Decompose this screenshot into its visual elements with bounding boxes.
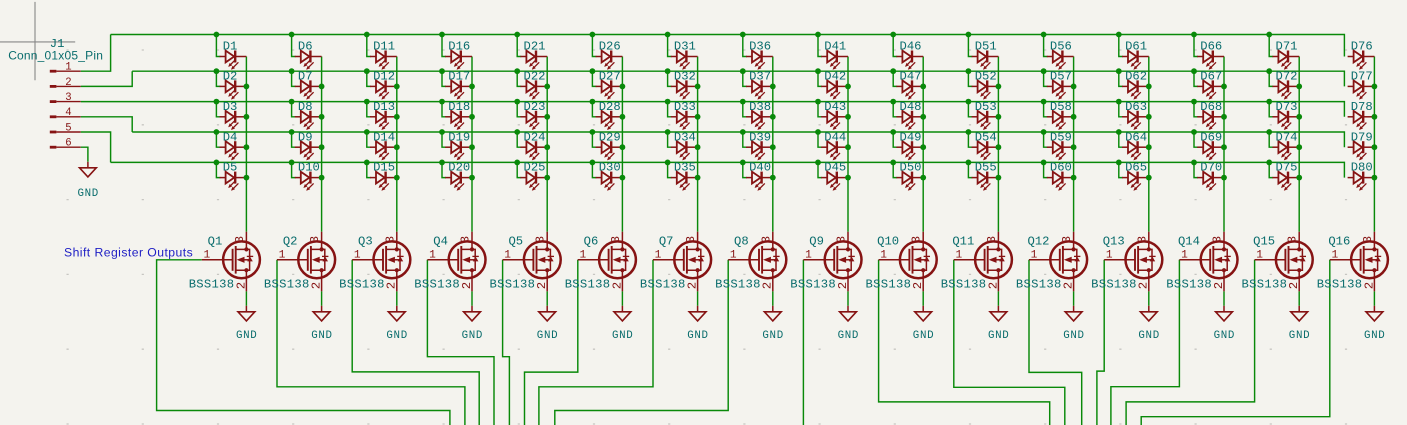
svg-text:D2: D2 bbox=[223, 70, 238, 84]
junction D69 cathode bbox=[1221, 144, 1227, 150]
svg-text:3: 3 bbox=[1135, 236, 1149, 243]
wire D11 anode stub bbox=[367, 35, 371, 57]
wire D44 anode stub bbox=[818, 132, 822, 147]
junction D19 cathode bbox=[469, 144, 475, 150]
wire row 3 bus bbox=[81, 102, 1345, 117]
svg-text:D6: D6 bbox=[298, 40, 313, 54]
svg-text:1: 1 bbox=[429, 250, 436, 262]
LED D75 bbox=[1272, 172, 1299, 191]
junction row4 col12 bbox=[1041, 129, 1047, 135]
svg-text:G N D: G N D bbox=[838, 330, 859, 342]
svg-text:1: 1 bbox=[1256, 250, 1263, 262]
junction D27 cathode bbox=[620, 84, 626, 90]
wire D6 anode stub bbox=[292, 35, 296, 57]
ground symbol Q10 bbox=[913, 312, 934, 342]
wire D8 anode stub bbox=[292, 102, 296, 117]
wire D2 anode stub bbox=[216, 71, 220, 86]
wire Q7 gate net bbox=[539, 260, 653, 425]
junction D5 cathode bbox=[244, 175, 250, 181]
svg-text:3: 3 bbox=[835, 236, 849, 243]
junction D60 cathode bbox=[1071, 175, 1077, 181]
svg-text:BSS138: BSS138 bbox=[1166, 277, 1212, 291]
wire Q11 gate net bbox=[954, 260, 1065, 425]
junction D55 cathode bbox=[996, 175, 1002, 181]
ground symbol Q15 bbox=[1289, 312, 1310, 342]
wire D74 anode stub bbox=[1269, 132, 1273, 147]
svg-text:BSS138: BSS138 bbox=[414, 277, 460, 291]
wire Q10 source to ground bbox=[922, 291, 924, 305]
svg-text:D44: D44 bbox=[824, 130, 846, 144]
wire D61 anode stub bbox=[1119, 35, 1123, 57]
wire D38 anode stub bbox=[743, 102, 747, 117]
svg-text:1: 1 bbox=[730, 250, 737, 262]
svg-text:Q8: Q8 bbox=[734, 235, 749, 249]
svg-text:D27: D27 bbox=[599, 70, 621, 84]
node diode column 9 cathode vertical bbox=[847, 57, 849, 232]
junction D78 cathode bbox=[1372, 114, 1378, 120]
LED D20 bbox=[445, 172, 472, 191]
wire D57 anode stub bbox=[1044, 71, 1048, 86]
junction D39 cathode bbox=[770, 144, 776, 150]
svg-text:Shift Register Outputs: Shift Register Outputs bbox=[64, 245, 193, 259]
junction row2 col6 bbox=[590, 68, 596, 74]
junction D10 cathode bbox=[319, 175, 325, 181]
pin 4 bbox=[50, 115, 57, 118]
svg-text:D63: D63 bbox=[1125, 100, 1147, 114]
svg-text:D55: D55 bbox=[975, 161, 997, 175]
transistor Q8 bbox=[715, 232, 786, 292]
ground symbol Q1 bbox=[236, 312, 257, 342]
svg-text:Q2: Q2 bbox=[283, 235, 298, 249]
junction row4 col11 bbox=[966, 129, 972, 135]
LED D51 bbox=[972, 51, 999, 70]
wire D28 anode stub bbox=[592, 102, 596, 117]
svg-text:Q12: Q12 bbox=[1028, 235, 1050, 249]
LED D7 bbox=[295, 80, 322, 99]
wire D21 anode stub bbox=[517, 35, 521, 57]
svg-text:D11: D11 bbox=[373, 40, 395, 54]
LED D16 bbox=[445, 51, 472, 70]
svg-text:D73: D73 bbox=[1276, 100, 1298, 114]
wire Q11 source to ground bbox=[997, 291, 999, 305]
wire Q1 gate net bbox=[157, 260, 450, 425]
connector J1 bbox=[8, 37, 103, 150]
wire D73 anode stub bbox=[1269, 102, 1273, 117]
wire Q3 source to ground bbox=[396, 291, 398, 305]
svg-text:2: 2 bbox=[310, 282, 324, 289]
node diode column 13 cathode vertical bbox=[1148, 57, 1150, 232]
svg-text:G N D: G N D bbox=[762, 330, 783, 342]
pin 5 bbox=[50, 131, 57, 134]
svg-text:G N D: G N D bbox=[462, 330, 483, 342]
LED D34 bbox=[671, 141, 698, 160]
junction row2 col9 bbox=[815, 68, 821, 74]
junction D44 cathode bbox=[845, 144, 851, 150]
wire D32 anode stub bbox=[668, 71, 672, 86]
wire Q1 source to ground bbox=[245, 291, 247, 305]
junction row4 col10 bbox=[890, 129, 896, 135]
LED D3 bbox=[220, 111, 247, 130]
junction D34 cathode bbox=[695, 144, 701, 150]
svg-text:2: 2 bbox=[1287, 282, 1301, 289]
svg-text:D72: D72 bbox=[1276, 70, 1298, 84]
svg-text:Q11: Q11 bbox=[952, 235, 974, 249]
junction D75 cathode bbox=[1296, 175, 1302, 181]
LED D39 bbox=[746, 141, 773, 160]
ground symbol Q12 bbox=[1063, 312, 1084, 342]
svg-text:G N D: G N D bbox=[1214, 330, 1235, 342]
LED D56 bbox=[1047, 51, 1074, 70]
svg-text:G N D: G N D bbox=[913, 330, 934, 342]
svg-text:D20: D20 bbox=[448, 161, 470, 175]
wire Q4 gate net bbox=[427, 260, 494, 425]
junction row4 col7 bbox=[665, 129, 671, 135]
svg-text:Q5: Q5 bbox=[508, 235, 523, 249]
wire D29 anode stub bbox=[592, 132, 596, 147]
svg-text:D8: D8 bbox=[298, 100, 313, 114]
svg-text:D54: D54 bbox=[975, 130, 997, 144]
junction D7 cathode bbox=[319, 84, 325, 90]
LED D32 bbox=[671, 80, 698, 99]
wire D16 anode stub bbox=[442, 35, 446, 57]
svg-text:G N D: G N D bbox=[1138, 330, 1159, 342]
svg-text:BSS138: BSS138 bbox=[866, 277, 912, 291]
wire D46 anode stub bbox=[893, 35, 897, 57]
wire D33 anode stub bbox=[668, 102, 672, 117]
wire D23 anode stub bbox=[517, 102, 521, 117]
junction row4 col3 bbox=[364, 129, 370, 135]
wire D34 anode stub bbox=[668, 132, 672, 147]
junction row4 col15 bbox=[1266, 129, 1272, 135]
LED D9 bbox=[295, 141, 322, 160]
svg-text:3: 3 bbox=[1361, 236, 1375, 243]
junction row1 col12 bbox=[1041, 32, 1047, 38]
svg-text:G N D: G N D bbox=[687, 330, 708, 342]
svg-text:Conn_01x05_Pin: Conn_01x05_Pin bbox=[8, 49, 103, 63]
svg-text:D24: D24 bbox=[524, 130, 546, 144]
svg-text:BSS138: BSS138 bbox=[1016, 277, 1062, 291]
junction D73 cathode bbox=[1296, 114, 1302, 120]
wire Q2 gate net bbox=[277, 260, 465, 425]
wire Q6 source to ground bbox=[621, 291, 623, 305]
junction row5 col12 bbox=[1041, 160, 1047, 166]
junction D15 cathode bbox=[394, 175, 400, 181]
junction D13 cathode bbox=[394, 114, 400, 120]
svg-text:1: 1 bbox=[203, 250, 210, 262]
junction D53 cathode bbox=[996, 114, 1002, 120]
ground symbol Q2 bbox=[311, 312, 332, 342]
wire D68 anode stub bbox=[1194, 102, 1198, 117]
LED D27 bbox=[596, 80, 623, 99]
wire D9 anode stub bbox=[292, 132, 296, 147]
svg-text:D56: D56 bbox=[1050, 40, 1072, 54]
wire D45 anode stub bbox=[818, 162, 822, 177]
svg-text:2: 2 bbox=[1362, 282, 1376, 289]
wire D51 anode stub bbox=[968, 35, 972, 57]
wire D54 anode stub bbox=[968, 132, 972, 147]
svg-text:4: 4 bbox=[65, 107, 71, 119]
wire D30 anode stub bbox=[592, 162, 596, 177]
junction row2 col1 bbox=[214, 68, 220, 74]
junction D59 cathode bbox=[1071, 144, 1077, 150]
LED D55 bbox=[972, 172, 999, 191]
wire D18 anode stub bbox=[442, 102, 446, 117]
junction D2 cathode bbox=[244, 84, 250, 90]
node diode column 12 cathode vertical bbox=[1073, 57, 1075, 232]
svg-text:Q7: Q7 bbox=[659, 235, 674, 249]
wire pin5 to row5 bbox=[81, 132, 111, 162]
svg-text:D64: D64 bbox=[1125, 130, 1147, 144]
wire Q14 gate net bbox=[1111, 260, 1180, 425]
junction D4 cathode bbox=[244, 144, 250, 150]
junction row4 col8 bbox=[740, 129, 746, 135]
junction D29 cathode bbox=[620, 144, 626, 150]
svg-text:D12: D12 bbox=[373, 70, 395, 84]
LED D31 bbox=[671, 51, 698, 70]
svg-text:D32: D32 bbox=[674, 70, 696, 84]
wire D27 anode stub bbox=[592, 71, 596, 86]
junction D74 cathode bbox=[1296, 144, 1302, 150]
wire D14 anode stub bbox=[367, 132, 371, 147]
wire D25 anode stub bbox=[517, 162, 521, 177]
wire D47 anode stub bbox=[893, 71, 897, 86]
wire D35 anode stub bbox=[668, 162, 672, 177]
transistor Q12 bbox=[1016, 232, 1087, 292]
junction row1 col15 bbox=[1266, 32, 1272, 38]
svg-text:G N D: G N D bbox=[386, 330, 407, 342]
LED D64 bbox=[1122, 141, 1149, 160]
junction row3 col1 bbox=[214, 99, 220, 105]
LED D25 bbox=[520, 172, 547, 191]
svg-text:D40: D40 bbox=[749, 161, 771, 175]
junction row5 col15 bbox=[1266, 160, 1272, 166]
svg-text:D78: D78 bbox=[1351, 100, 1373, 114]
wire Q9 source to ground bbox=[847, 291, 849, 305]
junction D32 cathode bbox=[695, 84, 701, 90]
wire D48 anode stub bbox=[893, 102, 897, 117]
svg-text:D61: D61 bbox=[1125, 40, 1147, 54]
LED D35 bbox=[671, 172, 698, 191]
svg-text:G N D: G N D bbox=[311, 330, 332, 342]
svg-text:3: 3 bbox=[65, 92, 71, 104]
wire D22 anode stub bbox=[517, 71, 521, 86]
junction row1 col13 bbox=[1116, 32, 1122, 38]
junction row5 col13 bbox=[1116, 160, 1122, 166]
wire row 1 bus bbox=[111, 35, 1345, 57]
LED D62 bbox=[1122, 80, 1149, 99]
svg-text:2: 2 bbox=[761, 282, 775, 289]
junction D22 cathode bbox=[544, 84, 550, 90]
LED D14 bbox=[370, 141, 397, 160]
wire D3 anode stub bbox=[216, 102, 220, 117]
junction row4 col9 bbox=[815, 129, 821, 135]
junction D8 cathode bbox=[319, 114, 325, 120]
svg-text:Q14: Q14 bbox=[1178, 235, 1200, 249]
LED D49 bbox=[896, 141, 923, 160]
junction row4 col13 bbox=[1116, 129, 1122, 135]
node diode column 1 cathode vertical bbox=[245, 57, 247, 232]
junction row1 col4 bbox=[439, 32, 445, 38]
junction row2 col3 bbox=[364, 68, 370, 74]
svg-text:D57: D57 bbox=[1050, 70, 1072, 84]
svg-text:D18: D18 bbox=[448, 100, 470, 114]
wire D69 anode stub bbox=[1194, 132, 1198, 147]
junction row3 col6 bbox=[590, 99, 596, 105]
junction row4 col4 bbox=[439, 129, 445, 135]
svg-text:D48: D48 bbox=[900, 100, 922, 114]
LED D60 bbox=[1047, 172, 1074, 191]
junction row2 col10 bbox=[890, 68, 896, 74]
wire Q12 source to ground bbox=[1073, 291, 1075, 305]
junction row5 col7 bbox=[665, 160, 671, 166]
wire pin2 to row2 bbox=[81, 71, 132, 86]
svg-text:D21: D21 bbox=[524, 40, 546, 54]
svg-text:D50: D50 bbox=[900, 161, 922, 175]
wire D67 anode stub bbox=[1194, 71, 1198, 86]
wire D13 anode stub bbox=[367, 102, 371, 117]
svg-text:1: 1 bbox=[1181, 250, 1188, 262]
junction D3 cathode bbox=[244, 114, 250, 120]
junction row2 col12 bbox=[1041, 68, 1047, 74]
pin 3 bbox=[50, 100, 57, 103]
svg-text:BSS138: BSS138 bbox=[640, 277, 686, 291]
LED D54 bbox=[972, 141, 999, 160]
wire D52 anode stub bbox=[968, 71, 972, 86]
svg-text:D53: D53 bbox=[975, 100, 997, 114]
wire D56 anode stub bbox=[1044, 35, 1048, 57]
junction row4 col14 bbox=[1191, 129, 1197, 135]
svg-text:BSS138: BSS138 bbox=[565, 277, 611, 291]
wire D62 anode stub bbox=[1119, 71, 1123, 86]
wire Q10 gate net bbox=[879, 260, 1050, 425]
transistor Q11 bbox=[941, 232, 1012, 292]
junction row5 col4 bbox=[439, 160, 445, 166]
LED D33 bbox=[671, 111, 698, 130]
svg-text:G N D: G N D bbox=[236, 330, 257, 342]
wire Q8 gate net bbox=[555, 260, 728, 425]
svg-text:D1: D1 bbox=[223, 40, 238, 54]
transistor Q4 bbox=[414, 232, 485, 292]
junction D38 cathode bbox=[770, 114, 776, 120]
junction D57 cathode bbox=[1071, 84, 1077, 90]
wire D55 anode stub bbox=[968, 162, 972, 177]
svg-text:D19: D19 bbox=[448, 130, 470, 144]
pin 2 bbox=[50, 85, 57, 88]
wire D15 anode stub bbox=[367, 162, 371, 177]
svg-text:D22: D22 bbox=[524, 70, 546, 84]
ground symbol Q6 bbox=[612, 312, 633, 342]
junction D67 cathode bbox=[1221, 84, 1227, 90]
LED D74 bbox=[1272, 141, 1299, 160]
wire D41 anode stub bbox=[818, 35, 822, 57]
junction row2 col15 bbox=[1266, 68, 1272, 74]
junction D20 cathode bbox=[469, 175, 475, 181]
LED D5 bbox=[220, 172, 247, 191]
junction D47 cathode bbox=[920, 84, 926, 90]
wire D5 anode stub bbox=[216, 162, 220, 177]
LED D28 bbox=[596, 111, 623, 130]
svg-text:D75: D75 bbox=[1276, 161, 1298, 175]
wire D10 anode stub bbox=[292, 162, 296, 177]
svg-text:D52: D52 bbox=[975, 70, 997, 84]
svg-text:D47: D47 bbox=[900, 70, 922, 84]
node diode column 4 cathode vertical bbox=[471, 57, 473, 232]
wire D19 anode stub bbox=[442, 132, 446, 147]
svg-text:D5: D5 bbox=[223, 161, 238, 175]
LED D11 bbox=[370, 51, 397, 70]
wire row 5 bus bbox=[111, 162, 1345, 177]
svg-text:2: 2 bbox=[234, 282, 248, 289]
junction D49 cathode bbox=[920, 144, 926, 150]
svg-text:BSS138: BSS138 bbox=[189, 277, 235, 291]
wire D36 anode stub bbox=[743, 35, 747, 57]
svg-text:3: 3 bbox=[383, 236, 397, 243]
svg-text:D68: D68 bbox=[1200, 100, 1222, 114]
LED D48 bbox=[896, 111, 923, 130]
junction D52 cathode bbox=[996, 84, 1002, 90]
node diode column 10 cathode vertical bbox=[922, 57, 924, 232]
junction D37 cathode bbox=[770, 84, 776, 90]
LED D29 bbox=[596, 141, 623, 160]
junction row4 col1 bbox=[214, 129, 220, 135]
junction row1 col6 bbox=[590, 32, 596, 38]
junction D40 cathode bbox=[770, 175, 776, 181]
transistor Q10 bbox=[866, 232, 937, 292]
LED D2 bbox=[220, 80, 247, 99]
wire D40 anode stub bbox=[743, 162, 747, 177]
transistor Q3 bbox=[339, 232, 410, 292]
LED D21 bbox=[520, 51, 547, 70]
LED D17 bbox=[445, 80, 472, 99]
svg-text:BSS138: BSS138 bbox=[941, 277, 987, 291]
svg-text:D42: D42 bbox=[824, 70, 846, 84]
LED D77 bbox=[1348, 80, 1375, 99]
junction D9 cathode bbox=[319, 144, 325, 150]
pin 6 bbox=[50, 146, 57, 149]
svg-text:BSS138: BSS138 bbox=[790, 277, 836, 291]
svg-text:3: 3 bbox=[1211, 236, 1225, 243]
transistor Q1 bbox=[189, 232, 260, 292]
node diode column 2 cathode vertical bbox=[321, 57, 323, 232]
junction D45 cathode bbox=[845, 175, 851, 181]
junction row5 col6 bbox=[590, 160, 596, 166]
LED D42 bbox=[821, 80, 848, 99]
svg-text:D66: D66 bbox=[1200, 40, 1222, 54]
svg-text:BSS138: BSS138 bbox=[1242, 277, 1288, 291]
wire Q7 source to ground bbox=[697, 291, 699, 305]
LED D1 bbox=[220, 51, 247, 70]
junction row5 col11 bbox=[966, 160, 972, 166]
wire Q9 gate net bbox=[802, 260, 804, 425]
ground symbol Q4 bbox=[462, 312, 483, 342]
junction row1 col9 bbox=[815, 32, 821, 38]
wire pin1 to row1 bbox=[81, 35, 111, 72]
wire D70 anode stub bbox=[1194, 162, 1198, 177]
junction row3 col15 bbox=[1266, 99, 1272, 105]
junction row5 col14 bbox=[1191, 160, 1197, 166]
svg-text:D74: D74 bbox=[1276, 130, 1298, 144]
svg-text:D59: D59 bbox=[1050, 130, 1072, 144]
svg-text:BSS138: BSS138 bbox=[1317, 277, 1363, 291]
junction D79 cathode bbox=[1372, 144, 1378, 150]
svg-text:D49: D49 bbox=[900, 130, 922, 144]
LED D52 bbox=[972, 80, 999, 99]
svg-text:2: 2 bbox=[1137, 282, 1151, 289]
wire Q13 gate net bbox=[1097, 260, 1104, 425]
junction D30 cathode bbox=[620, 175, 626, 181]
ground symbol Q11 bbox=[988, 312, 1009, 342]
wire Q4 source to ground bbox=[471, 291, 473, 305]
